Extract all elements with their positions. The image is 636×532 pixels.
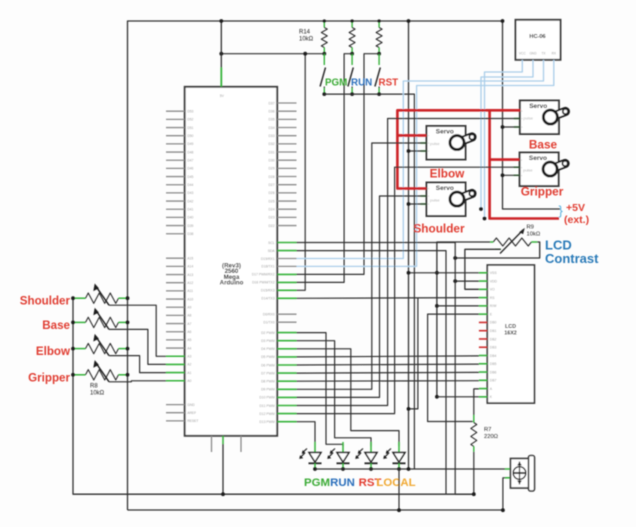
svg-text:D5 PWM: D5 PWM	[261, 355, 275, 359]
svg-text:D28: D28	[268, 175, 274, 179]
svg-text:RUN: RUN	[351, 78, 372, 89]
svg-text:GND: GND	[529, 52, 537, 56]
svg-text:•: •	[428, 187, 429, 191]
svg-text:AREF: AREF	[187, 411, 196, 415]
svg-text:D4 PWM: D4 PWM	[261, 347, 275, 351]
svg-text:A6: A6	[187, 330, 191, 334]
svg-text:D43: D43	[187, 191, 193, 195]
svg-text:D33: D33	[268, 134, 274, 138]
svg-text:RST: RST	[379, 78, 399, 89]
svg-text:A0: A0	[187, 379, 191, 383]
svg-text:D37: D37	[268, 101, 274, 105]
svg-text:D46: D46	[187, 167, 193, 171]
svg-text:+5V: +5V	[566, 202, 585, 214]
svg-text:pulse: pulse	[430, 198, 440, 203]
svg-text:D18/TX1: D18/TX1	[261, 265, 274, 269]
svg-text:D44: D44	[187, 183, 193, 187]
svg-text:Gripper: Gripper	[521, 185, 564, 199]
svg-text:GND: GND	[187, 403, 195, 407]
svg-text:RESET: RESET	[187, 419, 198, 423]
svg-text:D39: D39	[187, 224, 193, 228]
svg-text:D32: D32	[268, 142, 274, 146]
svg-text:D2 PWM: D2 PWM	[261, 331, 275, 335]
svg-text:VCC: VCC	[519, 52, 526, 56]
svg-text:(ext.): (ext.)	[564, 214, 589, 226]
svg-text:D14/TX3: D14/TX3	[261, 297, 274, 301]
svg-text:D49: D49	[187, 142, 193, 146]
svg-text:•: •	[428, 202, 429, 206]
svg-text:D9 PWM: D9 PWM	[261, 388, 275, 392]
svg-text:D50: D50	[187, 134, 193, 138]
svg-text:D8 PWM: D8 PWM	[261, 380, 275, 384]
svg-text:D23: D23	[268, 216, 274, 220]
svg-text:Elbow: Elbow	[430, 167, 466, 181]
svg-text:Servo: Servo	[529, 155, 547, 162]
svg-text:Servo: Servo	[436, 129, 454, 136]
svg-text:VO: VO	[490, 288, 495, 292]
svg-text:A10: A10	[187, 297, 193, 301]
svg-text:D52: D52	[187, 118, 193, 122]
svg-text:DB2: DB2	[490, 337, 497, 341]
svg-text:D1/TX0: D1/TX0	[263, 321, 275, 325]
svg-text:DB5: DB5	[490, 362, 497, 366]
svg-text:DB3: DB3	[490, 346, 497, 350]
svg-text:VSS: VSS	[490, 271, 498, 275]
svg-text:SCL: SCL	[268, 241, 275, 245]
svg-text:DB6: DB6	[490, 370, 497, 374]
svg-text:A1: A1	[187, 371, 191, 375]
svg-text:D17 PWM/RX2: D17 PWM/RX2	[252, 273, 275, 277]
svg-text:D45: D45	[187, 175, 193, 179]
svg-text:•: •	[521, 158, 522, 162]
svg-text:Base: Base	[42, 319, 70, 332]
svg-text:A3: A3	[187, 355, 191, 359]
svg-text:D6 PWM: D6 PWM	[261, 363, 275, 367]
svg-text:•: •	[521, 117, 522, 121]
svg-text:A12: A12	[187, 281, 193, 285]
svg-text:D29: D29	[268, 167, 274, 171]
svg-text:D19/RX1: D19/RX1	[261, 257, 275, 261]
svg-text:LOCAL: LOCAL	[376, 477, 415, 489]
svg-text:•: •	[428, 134, 429, 138]
svg-text:D35: D35	[268, 118, 274, 122]
svg-text:}: }	[559, 203, 564, 218]
svg-text:220Ω: 220Ω	[484, 434, 499, 440]
svg-text:•: •	[521, 174, 522, 178]
svg-text:A11: A11	[187, 289, 193, 293]
svg-text:VDD: VDD	[490, 279, 498, 283]
svg-text:A2: A2	[187, 363, 191, 367]
svg-text:D42: D42	[187, 199, 193, 203]
svg-text:D38: D38	[187, 232, 193, 236]
svg-text:D24: D24	[268, 208, 274, 212]
svg-text:Elbow: Elbow	[36, 345, 71, 358]
svg-text:•: •	[521, 165, 522, 169]
svg-text:DB4: DB4	[490, 354, 497, 358]
svg-text:R/W: R/W	[490, 304, 497, 308]
svg-text:A15: A15	[187, 257, 193, 261]
svg-text:D13 PWM: D13 PWM	[259, 420, 275, 424]
svg-text:RUN: RUN	[330, 477, 355, 489]
svg-text:LCD: LCD	[505, 324, 516, 330]
svg-text:D31: D31	[268, 150, 274, 154]
svg-text:A7: A7	[187, 322, 191, 326]
svg-text:D51: D51	[187, 126, 193, 130]
svg-text:Arduino: Arduino	[220, 280, 244, 287]
svg-text:D26: D26	[268, 191, 274, 195]
svg-text:A5: A5	[187, 338, 191, 342]
svg-text:16X2: 16X2	[504, 331, 517, 337]
svg-text:D34: D34	[268, 126, 274, 130]
svg-text:A13: A13	[187, 273, 193, 277]
svg-text:D41: D41	[187, 208, 193, 212]
svg-text:DB0: DB0	[490, 321, 497, 325]
svg-text:A4: A4	[187, 346, 191, 350]
svg-text:D25: D25	[268, 199, 274, 203]
svg-text:A8: A8	[187, 314, 191, 318]
svg-text:•: •	[428, 149, 429, 153]
svg-text:Base: Base	[529, 138, 558, 152]
svg-text:Shoulder: Shoulder	[20, 295, 71, 308]
svg-text:R8: R8	[90, 384, 98, 390]
svg-text:RS: RS	[490, 296, 495, 300]
svg-text:D0/RX0: D0/RX0	[263, 313, 275, 317]
svg-text:10kΩ: 10kΩ	[527, 232, 541, 238]
svg-text:pulse: pulse	[430, 141, 440, 146]
svg-text:•: •	[521, 109, 522, 113]
svg-text:A9: A9	[187, 306, 191, 310]
svg-text:R7: R7	[484, 427, 491, 433]
svg-text:pulse: pulse	[523, 116, 533, 121]
svg-text:PGM: PGM	[304, 477, 330, 489]
svg-text:D53: D53	[187, 110, 193, 114]
svg-text:D30: D30	[268, 158, 274, 162]
svg-text:Servo: Servo	[529, 103, 547, 110]
svg-text:10kΩ: 10kΩ	[90, 391, 105, 397]
svg-text:D40: D40	[187, 216, 193, 220]
svg-text:D11 PWM: D11 PWM	[259, 404, 274, 408]
svg-text:D47: D47	[187, 159, 193, 163]
svg-text:SDA: SDA	[268, 249, 276, 253]
svg-text:D36: D36	[268, 109, 274, 113]
svg-text:•: •	[428, 141, 429, 145]
svg-text:Shoulder: Shoulder	[413, 222, 465, 236]
svg-text:D16 PWM/TX2: D16 PWM/TX2	[252, 281, 275, 285]
svg-text:A14: A14	[187, 265, 193, 269]
svg-text:pulse: pulse	[523, 168, 533, 173]
svg-text:D3 PWM: D3 PWM	[261, 339, 275, 343]
svg-text:D48: D48	[187, 150, 193, 154]
svg-text:R14: R14	[299, 30, 311, 36]
svg-text:•: •	[521, 125, 522, 129]
svg-text:D27: D27	[268, 183, 274, 187]
svg-text:Gripper: Gripper	[28, 371, 70, 384]
svg-text:10kΩ: 10kΩ	[299, 37, 314, 43]
svg-text:DB7: DB7	[490, 379, 497, 383]
svg-text:Contrast: Contrast	[545, 251, 599, 266]
svg-text:HC-06: HC-06	[529, 34, 545, 40]
svg-text:•: •	[428, 194, 429, 198]
svg-text:D22: D22	[268, 224, 274, 228]
svg-text:D7 PWM: D7 PWM	[261, 371, 275, 375]
svg-text:D12 PWM: D12 PWM	[259, 412, 275, 416]
svg-text:DB1: DB1	[490, 329, 497, 333]
svg-text:Servo: Servo	[436, 185, 454, 192]
svg-text:D10 PWM: D10 PWM	[259, 396, 275, 400]
svg-text:R9: R9	[527, 225, 534, 231]
svg-text:5V: 5V	[220, 94, 225, 98]
svg-text:D15/RX3: D15/RX3	[261, 289, 275, 293]
svg-text:PGM: PGM	[325, 78, 347, 89]
